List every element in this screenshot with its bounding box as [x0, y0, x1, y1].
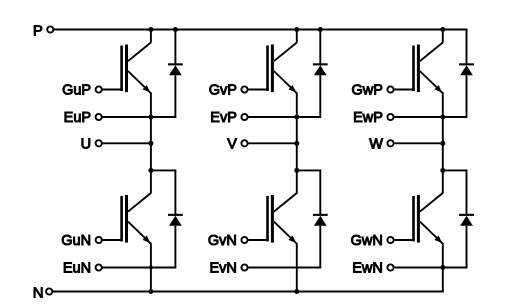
svg-text:U: U	[81, 136, 91, 152]
svg-text:GvN: GvN	[208, 233, 237, 249]
svg-text:GwN: GwN	[351, 233, 383, 249]
svg-text:EvP: EvP	[210, 110, 237, 126]
svg-text:GuN: GuN	[61, 233, 91, 249]
svg-text:EvN: EvN	[209, 261, 236, 277]
svg-text:EwP: EwP	[353, 110, 383, 126]
svg-text:N: N	[33, 285, 44, 302]
svg-text:EwN: EwN	[352, 261, 383, 277]
svg-text:W: W	[369, 136, 383, 152]
svg-text:GuP: GuP	[62, 83, 91, 99]
svg-text:V: V	[227, 136, 237, 152]
svg-text:GvP: GvP	[209, 83, 237, 99]
svg-text:GwP: GwP	[351, 83, 382, 99]
svg-text:P: P	[33, 23, 43, 40]
svg-text:EuP: EuP	[64, 110, 91, 126]
svg-text:EuN: EuN	[63, 261, 91, 277]
